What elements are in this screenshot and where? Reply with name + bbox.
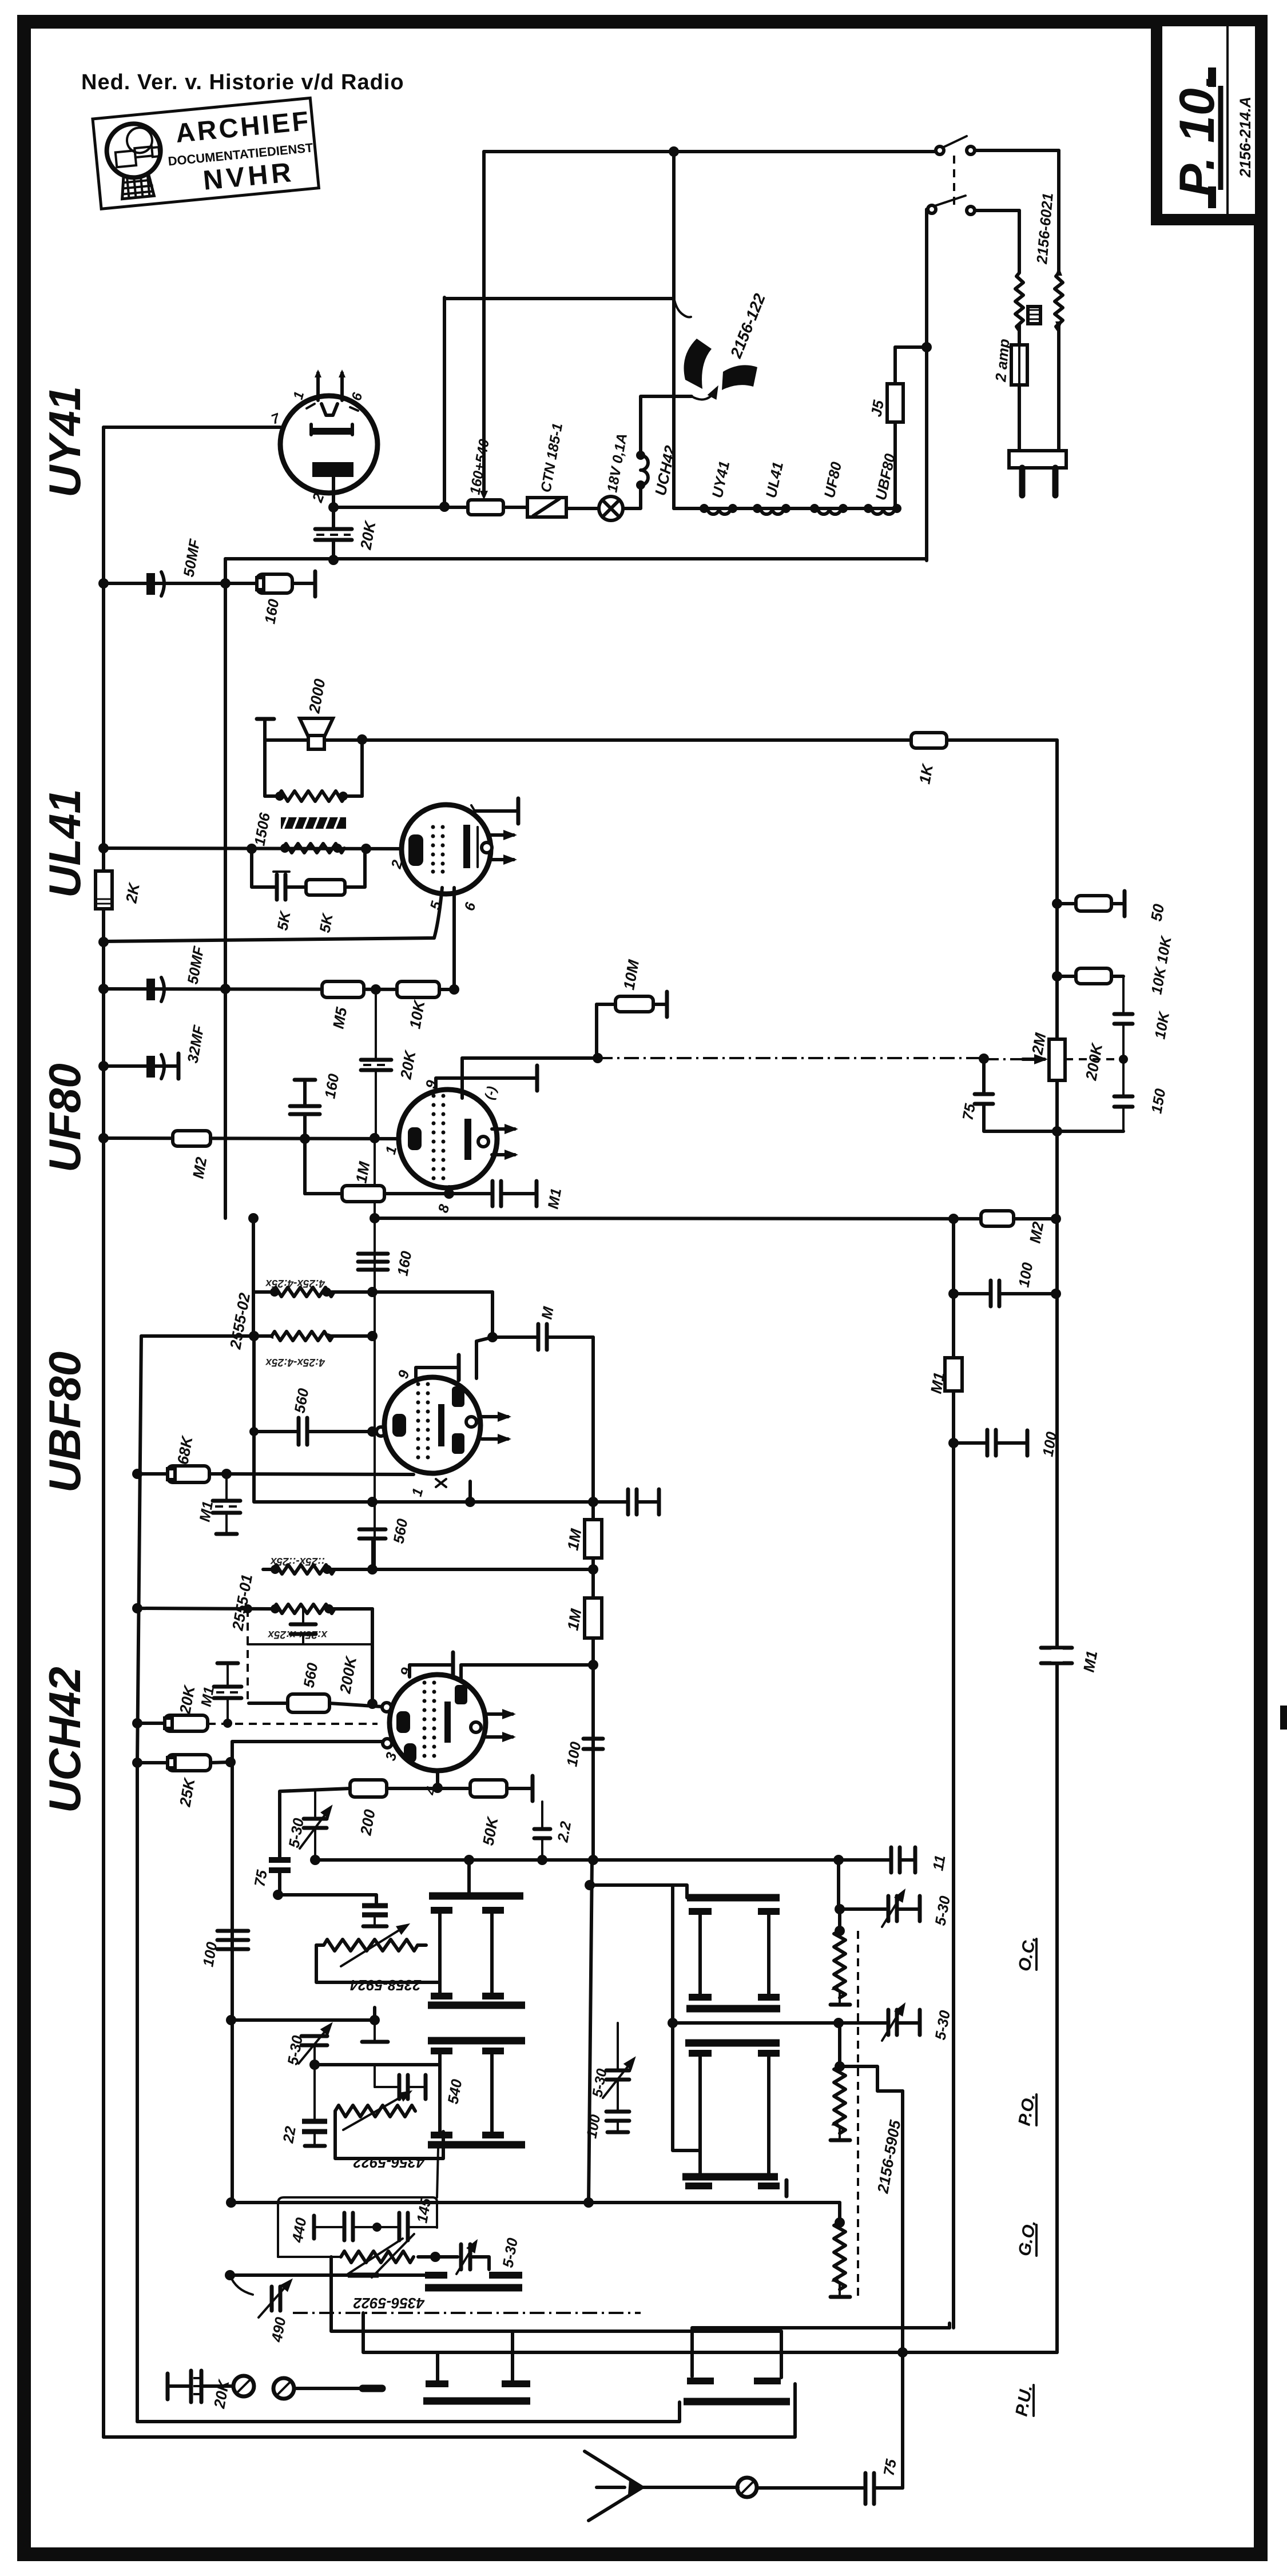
volume potentiometer 2M / 200K xyxy=(1023,1031,1128,1082)
svg-text:UY41: UY41 xyxy=(39,386,90,498)
svg-text:UL41: UL41 xyxy=(39,789,90,898)
AVC rail x240 xyxy=(137,1336,141,2422)
wire switch drop x1178 xyxy=(672,152,676,299)
NVHR archive stamp xyxy=(93,98,319,209)
border frame right edge tick xyxy=(1280,1706,1287,1730)
svg-text:4:25x-4:25x: 4:25x-4:25x xyxy=(265,1356,325,1368)
wire grid return line y2130 xyxy=(375,1218,1056,1219)
osc coil 1 OC vertical zigzag xyxy=(831,1909,850,2005)
wire top HT line y265 xyxy=(484,150,936,153)
osc grid row y3537 xyxy=(673,2021,886,2025)
capacitor 32MF xyxy=(98,1023,208,1079)
pilot lamp 18V 0.1A xyxy=(599,432,630,520)
capacitor 560 IF2 xyxy=(291,1609,321,1689)
loudspeaker 2000 xyxy=(300,678,333,749)
rectifier tube UY41 xyxy=(269,369,378,507)
wire reservoir line y1020 xyxy=(104,582,315,585)
left rail (chassis minus rail) full height xyxy=(102,427,105,2437)
svg-text:2156-214.A: 2156-214.A xyxy=(1237,97,1254,178)
trimmer aerial 1 xyxy=(362,1906,388,1926)
capacitor 20K coupling xyxy=(361,989,419,1137)
capacitor 20K pickup xyxy=(168,2371,233,2410)
capacitor 560 grid UBF80 xyxy=(249,1336,386,1445)
speaker terminal bar xyxy=(257,719,274,740)
wire y3338 trimmer OC top xyxy=(835,1891,954,1927)
gang section A1 stator-rotor xyxy=(428,1896,525,2005)
svg-text:M1: M1 xyxy=(196,1500,216,1523)
coupling column x651 from grid-return line xyxy=(374,1218,376,1571)
svg-text:M1: M1 xyxy=(927,1371,948,1395)
UBF80 anode riser to M cap xyxy=(476,1337,492,1378)
osc rotor link x1176 xyxy=(673,1885,700,2173)
wire UL41 anode line y1483 xyxy=(104,848,402,849)
resistor M5 xyxy=(322,981,364,1030)
dropper resistor 2156-6021 left zigzag xyxy=(1015,273,1023,331)
osc padder trimmer 5-30 + 100 xyxy=(583,2023,634,2140)
band label P.O. xyxy=(1015,2092,1039,2127)
wire rail tap to gang A3 xyxy=(225,2270,425,2280)
resistor 160+540 ballast xyxy=(467,438,503,515)
IF pentode-diode UBF80 xyxy=(384,1369,480,1498)
resistor M1 screen xyxy=(927,1358,962,1395)
svg-text:M2: M2 xyxy=(1026,1221,1047,1245)
heater UCH42 bumps xyxy=(641,455,648,485)
GO coil box xyxy=(278,2149,438,2257)
osc coil 3 GO xyxy=(226,2197,850,2297)
pickup gang plates right xyxy=(684,2381,790,2402)
wire UF80 grid line y1990 xyxy=(104,1138,399,1139)
wire UF80 anode AVC line solid part xyxy=(462,1056,598,1060)
capacitor 160 IF xyxy=(358,1250,415,1277)
svg-text:J5: J5 xyxy=(867,399,887,418)
capacitor 160 grid xyxy=(290,1072,343,1139)
resistor 25K xyxy=(132,1755,236,1808)
UCH42 anode riser y2911 to 1M rail xyxy=(461,1665,593,1681)
dial lamp assembly 2156-122 wedges xyxy=(674,291,769,400)
capacitor 11 + bar xyxy=(891,1847,949,1873)
wire grid feed y3313 xyxy=(278,1895,376,1905)
capacitor 440 xyxy=(288,2213,382,2244)
capacitor M1 on HT rail xyxy=(1041,1648,1101,1673)
UBF80 grid2 bar xyxy=(416,1355,459,1380)
thermistor CTN 185-1 xyxy=(527,422,566,517)
svg-text:11: 11 xyxy=(929,1854,948,1872)
wire smoothing node line y980 xyxy=(225,557,927,560)
heater UY41 xyxy=(708,508,730,514)
svg-text:UF80: UF80 xyxy=(39,1063,90,1172)
UF80 grid3 to chassis bar xyxy=(436,1066,537,1091)
IF2 primary 2555-01 row y2813 xyxy=(132,1573,372,1640)
wire ballast feed vertical x846 with arrow xyxy=(482,152,486,491)
UL41 screen feed x794 xyxy=(452,888,456,989)
capacitor 100 grid xyxy=(199,1931,248,1968)
resistor 10K anode xyxy=(1052,934,1175,996)
svg-text:::25x-::25x: ::25x-::25x xyxy=(270,1555,325,1567)
wire CTN to lamp xyxy=(566,507,599,510)
P.10 title box top right xyxy=(1157,21,1261,220)
wire anode HT line y1294 xyxy=(265,738,1057,742)
capacitor 100 osc grid xyxy=(563,1739,603,1768)
AVC dash-dot line to volume pot xyxy=(598,1058,1046,1059)
antenna isolation socket xyxy=(737,2478,863,2497)
wire lamp to UCH42 heater riser xyxy=(623,485,641,508)
smoothing rail x394 xyxy=(224,559,227,1218)
choke field coil (hatched bar) xyxy=(281,817,346,829)
switched mains rail x1620 xyxy=(925,209,928,560)
capacitor 50MF screen xyxy=(146,944,208,1001)
heater chain line xyxy=(674,507,895,510)
capacitor right of 1M xyxy=(593,1489,659,1514)
svg-text:UCH42: UCH42 xyxy=(39,1667,90,1813)
UF80 cathode line 1M xyxy=(305,1139,454,1202)
gang section O2 xyxy=(682,2043,786,2196)
svg-text:4356-5922: 4356-5922 xyxy=(353,2295,425,2312)
UF80 anode riser xyxy=(460,1058,464,1098)
IF1 secondary winding xyxy=(141,1331,378,1368)
osc coil 2 PO xyxy=(831,2023,850,2140)
resistor 2K rail xyxy=(96,871,143,909)
switch link dashed xyxy=(953,156,955,205)
HT rail right x1848 xyxy=(1055,740,1059,2352)
wire heater line y522 xyxy=(444,297,674,300)
mains plug xyxy=(1009,451,1066,495)
UBF80 diode arrows xyxy=(482,1417,508,1439)
wires to mains plug xyxy=(1018,385,1021,452)
capacitor 145 xyxy=(377,2197,437,2240)
dashed link x433 xyxy=(247,1609,249,1702)
svg-text:4:25x-4:25x: 4:25x-4:25x xyxy=(265,1277,325,1289)
svg-text:50: 50 xyxy=(1147,903,1167,923)
capacitor 10K dashed branch xyxy=(1114,976,1173,1058)
wire switch to ballast resistor left xyxy=(1018,210,1021,273)
capacitor 540 xyxy=(375,2065,466,2105)
grid rail x403 xyxy=(231,1742,234,2203)
capacitor 100 screen + bar xyxy=(948,1430,1060,1458)
resistor M2 xyxy=(173,1131,210,1180)
svg-text:M1: M1 xyxy=(544,1187,565,1210)
UCH42 right pin arrows xyxy=(486,1714,513,1737)
osc coil core dashes xyxy=(857,1931,859,2299)
mains switch upper pole xyxy=(936,136,1059,154)
trimmer 5-30 aerial2 xyxy=(284,2025,331,2070)
wire ground loop outer y4318 xyxy=(104,2331,795,2437)
svg-text:M2: M2 xyxy=(189,1156,210,1180)
UCH42 cathode row 200 / 50K xyxy=(280,1771,533,1859)
resistor 1K xyxy=(911,733,947,785)
band label G.O. xyxy=(1015,2219,1039,2257)
mains switch lower pole xyxy=(928,196,1019,214)
UCH42 grid2 bar xyxy=(410,1652,453,1677)
svg-text:Ned. Ver. v. Historie v/d Radi: Ned. Ver. v. Historie v/d Radio xyxy=(81,70,404,94)
resistor 10M xyxy=(597,959,667,1058)
trimmer 490 xyxy=(230,2275,291,2344)
gang feed riser x820 xyxy=(467,1860,471,1893)
wire rotor row y3610 xyxy=(315,2063,440,2066)
trimmer 5-30 GO xyxy=(435,2236,521,2274)
capacitor M1 cathode xyxy=(449,1181,565,1210)
svg-text:P. 10.: P. 10. xyxy=(1170,74,1225,197)
dropper resistor 2156-6021 right zigzag xyxy=(1055,273,1063,331)
pickup gang plates left xyxy=(423,2331,530,2401)
gang section O1 xyxy=(686,1898,780,2009)
svg-text:M1: M1 xyxy=(1080,1649,1101,1673)
wire ballast to CTN xyxy=(503,506,527,509)
triode-hexode UCH42 xyxy=(383,1666,486,1798)
resistor 1M grid leak lower xyxy=(564,1598,602,1638)
capacitor 75 antenna xyxy=(865,2458,903,2504)
wire switch to ballast resistor right xyxy=(1057,150,1060,273)
resistor M2 return xyxy=(981,1211,1047,1245)
wire osc PO tap to 2156-5905 column xyxy=(840,2066,903,2091)
resistor 50 + bar xyxy=(1052,891,1167,923)
rotor tap row y3532 xyxy=(226,2007,388,2042)
output tube UL41 xyxy=(388,805,491,913)
wire UCH42 heater top to dial assembly xyxy=(641,396,692,455)
UL41 screen to chassis bar xyxy=(471,798,518,824)
heater UBF80 xyxy=(872,508,895,514)
gang section A3 PU xyxy=(425,2275,522,2288)
tone network 5K 5K xyxy=(252,849,365,934)
pentode UF80 xyxy=(383,1079,499,1215)
capacitor 22 aerial xyxy=(279,2065,327,2146)
wire oscillator row y3252 xyxy=(315,1858,889,1862)
wire y4076 line xyxy=(331,2257,781,2331)
svg-text:75: 75 xyxy=(959,1102,979,1122)
band label O.C. xyxy=(1015,1935,1039,1973)
GO coil zigzag xyxy=(341,2234,440,2312)
wire diode line y2626 xyxy=(254,1432,593,1502)
IF1 primary winding xyxy=(227,1277,492,1351)
node top line x1178 xyxy=(669,146,679,157)
dash-dot gang coupling line xyxy=(293,2312,641,2314)
resistor 1M grid leak upper xyxy=(564,1520,602,1558)
osc rail x1029 xyxy=(589,1860,592,2203)
capacitor M anode UBF80 xyxy=(487,1305,593,1350)
band label P.U. xyxy=(1012,2384,1036,2418)
svg-text:4356-5922: 4356-5922 xyxy=(353,2154,425,2171)
resistor 68K AVC xyxy=(132,1434,414,1482)
resistor 10K xyxy=(397,981,439,1030)
capacitor M1 AVC xyxy=(196,1474,240,1534)
heater UF80 xyxy=(818,508,841,514)
terminal bar after 160 xyxy=(313,571,317,597)
field coil loop wires xyxy=(265,740,362,796)
wire UCH42 grid1 row y3048 xyxy=(232,1739,392,1748)
capacitor 22 xyxy=(534,1802,574,1865)
aerial coil 1 zigzag xyxy=(316,1925,440,1994)
wire y4070 line xyxy=(692,2328,950,2376)
heater feed riser from switch rail xyxy=(672,299,676,508)
trimmer 5-30 osc OC row xyxy=(882,2005,954,2041)
wire y2875 link xyxy=(248,1643,372,1645)
anode column x651 xyxy=(371,1609,374,1703)
svg-text:22: 22 xyxy=(279,2125,299,2145)
wire HT vertical from y522 line xyxy=(443,297,446,507)
svg-text:75: 75 xyxy=(880,2458,900,2477)
UF80 right pin arrows xyxy=(492,1129,515,1155)
fuse 2 amp xyxy=(992,325,1027,385)
node cathode pin2 xyxy=(328,502,339,512)
osc coil column x1468 xyxy=(837,1860,840,1909)
resistor 200K osc anode xyxy=(249,1654,391,1712)
node HT feed xyxy=(439,502,450,512)
fuse holder J5 xyxy=(867,342,932,508)
wire y4113 line xyxy=(363,2313,1057,2352)
UL41 right pin arrows xyxy=(482,835,514,860)
svg-text:75: 75 xyxy=(251,1869,271,1888)
grid rail x1037 xyxy=(591,1337,595,1860)
wire UY41 pin7 to left rail xyxy=(104,426,280,429)
wire 100 row y2262 xyxy=(948,1261,1061,1306)
UBF80 diode pin drop xyxy=(468,1481,472,1502)
antenna symbol xyxy=(585,2451,738,2521)
svg-text:2358-5924: 2358-5924 xyxy=(349,1977,422,1994)
resistor 20K + M1 cap xyxy=(132,1663,378,1731)
gang section A2 xyxy=(428,2041,525,2145)
capacitor 75 pot top xyxy=(959,1059,1123,1136)
resistor primary zigzag xyxy=(283,844,344,853)
capacitor 560 diode xyxy=(359,1517,411,1569)
trimmer 5-30 osc grid xyxy=(285,1791,331,1865)
IF2 tertiary winding y2744 xyxy=(263,1555,598,1575)
screen rail x1667 xyxy=(952,1219,955,2328)
wire screen line y1730 xyxy=(104,989,454,989)
UL41 cathode wire to rail y1646 xyxy=(104,888,442,941)
capacitor 50MF reservoir xyxy=(146,537,204,596)
aerial coil 2 zigzag xyxy=(335,2092,443,2171)
wire UY41 cathode node to resistor chain xyxy=(333,506,468,509)
column 2156-5905 x1578 xyxy=(901,2091,904,2488)
resistor hum-buck zigzag xyxy=(278,791,345,801)
capacitor 75 cathode xyxy=(251,1860,291,1895)
heater UL41 xyxy=(761,508,784,514)
wire y3296 to osc gang xyxy=(590,1885,687,1898)
resistor 160 surge xyxy=(257,574,292,625)
svg-text:M1: M1 xyxy=(198,1685,217,1708)
capacitor 150 xyxy=(1114,1059,1169,1131)
capacitor 20K cathode xyxy=(315,507,379,559)
svg-text:UBF80: UBF80 xyxy=(39,1351,90,1493)
wire AVC loop inner y4287 xyxy=(137,2402,680,2422)
pickup sockets xyxy=(201,2376,382,2399)
wire IF1 feed column x443 xyxy=(252,1218,255,1336)
